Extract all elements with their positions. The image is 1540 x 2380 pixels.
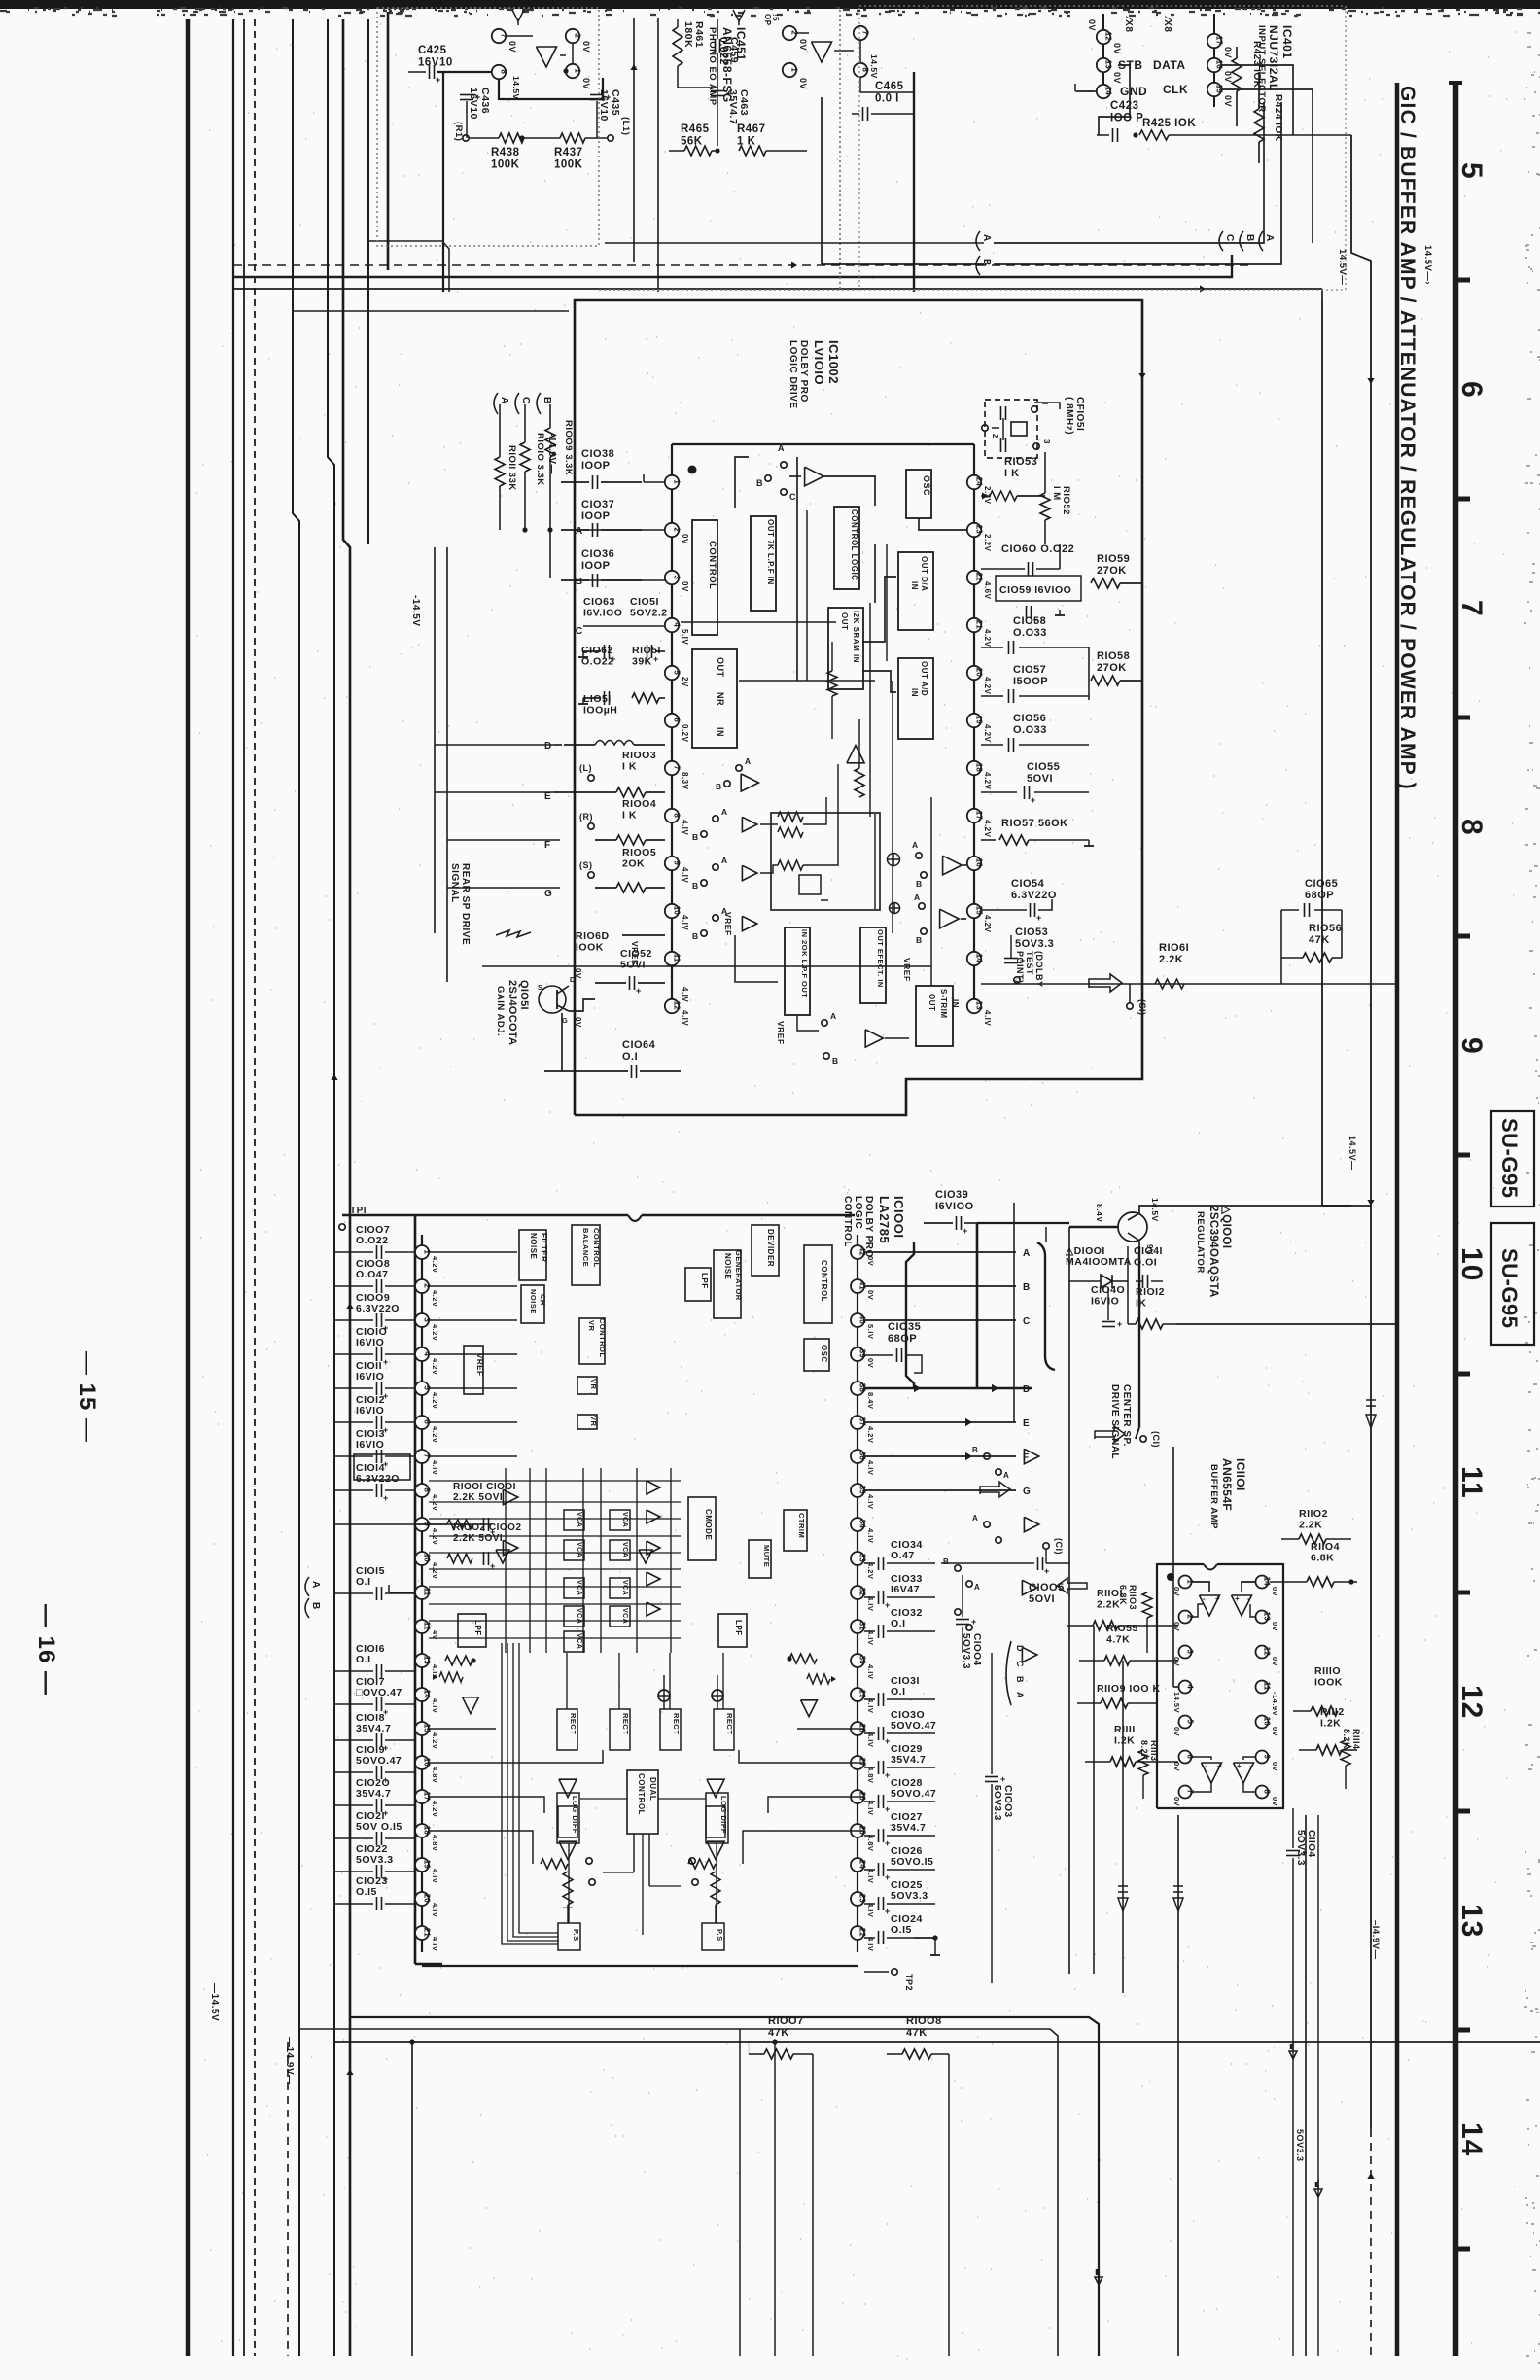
bottom rail of IC1001 wires bbox=[422, 1965, 857, 1967]
svg-text:GIC / BUFFER AMP / ATTENUATOR: GIC / BUFFER AMP / ATTENUATOR / REGULATO… bbox=[1396, 86, 1418, 790]
svg-text:0V: 0V bbox=[1087, 19, 1097, 31]
svg-text:CONTROL: CONTROL bbox=[637, 1773, 646, 1815]
svg-text:RIIIOIOOK: RIIIOIOOK bbox=[1314, 1665, 1343, 1689]
wire crystal to R1052 bbox=[1034, 402, 1060, 409]
svg-text:14.5V—: 14.5V— bbox=[1337, 249, 1347, 285]
DUAL CONTROL block bbox=[627, 1770, 658, 1834]
IC1001 pin 36 bbox=[851, 1450, 864, 1463]
IC1001 pin 20 bbox=[415, 1892, 429, 1906]
switch contacts A/B row 7 bbox=[736, 765, 742, 771]
svg-text:IN: IN bbox=[910, 581, 919, 590]
svg-text:RECT: RECT bbox=[569, 1713, 577, 1734]
IC1001 pin 34 bbox=[851, 1518, 864, 1531]
svg-text:+: + bbox=[1117, 1319, 1123, 1329]
ruler end cap top bbox=[1449, 81, 1462, 85]
sum nodes bbox=[888, 854, 900, 866]
wire GND bracket bbox=[1077, 90, 1095, 92]
svg-text:CIO225OV3.3: CIO225OV3.3 bbox=[356, 1843, 394, 1866]
svg-text:24: 24 bbox=[858, 1860, 867, 1869]
svg-text:0V: 0V bbox=[581, 41, 591, 52]
wire Q1001 emitter bus down bbox=[1045, 1227, 1047, 1242]
IC1001 CTRIM block bbox=[784, 1510, 807, 1551]
svg-text:+: + bbox=[383, 1493, 389, 1503]
svg-text:(SI): (SI) bbox=[1137, 999, 1147, 1016]
crystal symbol bbox=[1000, 406, 1002, 420]
svg-text:14.5V: 14.5V bbox=[1150, 1198, 1160, 1222]
svg-text:+: + bbox=[475, 92, 481, 102]
svg-text:6: 6 bbox=[673, 717, 682, 722]
outer box right lower bbox=[575, 723, 1142, 1115]
svg-text:RECT: RECT bbox=[621, 1713, 630, 1734]
wire bus bbox=[328, 19, 334, 2356]
svg-text:GAIN ADJ.: GAIN ADJ. bbox=[495, 986, 506, 1036]
IC1001 pin 38 bbox=[851, 1382, 864, 1395]
svg-text:CONTROL: CONTROL bbox=[598, 1318, 607, 1358]
IC1002 index dot bbox=[688, 466, 697, 474]
svg-text:9: 9 bbox=[1263, 1754, 1272, 1759]
arrow up bbox=[331, 1074, 337, 1080]
wire STB down bbox=[1099, 65, 1130, 135]
svg-text:GND: GND bbox=[1120, 85, 1147, 98]
svg-text:4.IV: 4.IV bbox=[866, 1494, 875, 1509]
model label SU-G95 upper bbox=[1491, 1111, 1534, 1207]
svg-text:14: 14 bbox=[1104, 87, 1113, 95]
svg-text:NOISE: NOISE bbox=[723, 1253, 732, 1280]
input triangles pins 9 10 bbox=[458, 1523, 460, 1525]
svg-text:NR: NR bbox=[716, 692, 725, 706]
svg-text:A: A bbox=[1023, 1248, 1031, 1259]
svg-text:32: 32 bbox=[858, 1588, 867, 1596]
svg-text:4.IV: 4.IV bbox=[681, 867, 689, 883]
hatched arrow down right bbox=[1366, 1400, 1376, 1428]
svg-text:NOISE: NOISE bbox=[529, 1233, 538, 1260]
IC1002 pin 2 bbox=[665, 523, 679, 537]
svg-text:D: D bbox=[1023, 1384, 1031, 1395]
svg-text:8.4V: 8.4V bbox=[1095, 1204, 1104, 1223]
svg-text:VR: VR bbox=[589, 1379, 598, 1390]
vertical x797 down bbox=[774, 2042, 776, 2356]
svg-text:A: A bbox=[499, 397, 509, 404]
IC1001 NOISE CH block bbox=[521, 1285, 544, 1323]
svg-text:5OV3.3: 5OV3.3 bbox=[1295, 2129, 1305, 2162]
capacitor C1059 16V100 boxed bbox=[996, 576, 1081, 601]
IC1101 wires verticals down bbox=[1068, 1227, 1070, 1974]
svg-text:G: G bbox=[562, 1016, 568, 1025]
svg-text:22: 22 bbox=[975, 573, 984, 581]
svg-text:0V: 0V bbox=[581, 78, 591, 89]
svg-text:LOG DIFF: LOG DIFF bbox=[719, 1796, 728, 1834]
svg-text:S-TRIM: S-TRIM bbox=[939, 989, 948, 1019]
svg-text:CIO58O.O33: CIO58O.O33 bbox=[1013, 615, 1047, 639]
svg-text:TPI: TPI bbox=[350, 1206, 367, 1216]
IC1002 pin 14 bbox=[967, 952, 981, 965]
IC1001 pin 16 bbox=[415, 1756, 429, 1769]
svg-text:6: 6 bbox=[1455, 381, 1487, 399]
IC1101 pin 11 bbox=[1256, 1681, 1269, 1694]
svg-text:5: 5 bbox=[1455, 162, 1487, 180]
wire R461/C459 join bbox=[678, 87, 717, 88]
svg-text:VR: VR bbox=[589, 1416, 598, 1427]
svg-text:39: 39 bbox=[858, 1349, 867, 1358]
svg-text:4.IV: 4.IV bbox=[681, 915, 689, 930]
svg-text:A: A bbox=[974, 1583, 980, 1592]
svg-text:R461180K: R461180K bbox=[682, 21, 705, 48]
svg-text:4.8V: 4.8V bbox=[866, 1767, 875, 1783]
svg-text:14: 14 bbox=[975, 954, 984, 962]
svg-text:0V: 0V bbox=[866, 1358, 875, 1368]
svg-text:S: S bbox=[538, 983, 543, 992]
IC1101 opamp triangles bbox=[1200, 1595, 1220, 1616]
log diff column right bbox=[707, 1779, 724, 1797]
svg-text:C4590.022: C4590.022 bbox=[717, 37, 740, 65]
svg-text:B: B bbox=[692, 931, 699, 941]
svg-text:VR: VR bbox=[587, 1320, 596, 1332]
svg-text:+: + bbox=[885, 1736, 891, 1746]
IC1001 pin 40 bbox=[851, 1313, 864, 1327]
wire bus bbox=[367, 19, 369, 544]
svg-text:GENERATOR: GENERATOR bbox=[734, 1250, 743, 1301]
svg-text:C: C bbox=[1023, 1316, 1031, 1327]
svg-text:CIO56O.O33: CIO56O.O33 bbox=[1013, 713, 1047, 736]
dotted frame input selector zone bbox=[859, 6, 1346, 290]
svg-text:TP2: TP2 bbox=[904, 1974, 914, 1991]
IC1001 pin 9 bbox=[415, 1518, 429, 1531]
svg-text:+: + bbox=[1235, 1594, 1240, 1603]
svg-text:A: A bbox=[310, 1581, 321, 1589]
svg-text:CLK: CLK bbox=[1163, 83, 1188, 96]
IC1101 pin 8 bbox=[1256, 1786, 1269, 1799]
wire -14.9V bus bbox=[232, 19, 234, 2356]
hatch arrow rear sp bbox=[496, 930, 531, 937]
wires pins to right bbox=[1221, 65, 1293, 135]
svg-text:-14.9V: -14.9V bbox=[1271, 1692, 1279, 1716]
svg-text:4.IV: 4.IV bbox=[983, 1010, 992, 1026]
svg-text:3: 3 bbox=[1042, 439, 1051, 444]
svg-text:4.2V: 4.2V bbox=[431, 1732, 439, 1749]
svg-text:⁄X8: ⁄X8 bbox=[1162, 16, 1172, 32]
IC1002 right pin rail bbox=[973, 444, 975, 1006]
svg-text:RECT: RECT bbox=[725, 1713, 734, 1734]
svg-text:C: C bbox=[576, 626, 583, 637]
svg-text:12: 12 bbox=[423, 1622, 432, 1630]
svg-text:0V: 0V bbox=[1172, 1727, 1181, 1736]
svg-text:0V: 0V bbox=[1271, 1657, 1279, 1666]
svg-text:CIO6O O.O22: CIO6O O.O22 bbox=[1001, 543, 1074, 555]
svg-text:19: 19 bbox=[975, 716, 984, 724]
svg-text:4.2V: 4.2V bbox=[431, 1528, 439, 1545]
svg-text:+: + bbox=[885, 1804, 891, 1814]
terminal (S1) bbox=[1127, 1003, 1133, 1009]
svg-text:21: 21 bbox=[975, 620, 984, 629]
IC1001 pin 39 bbox=[851, 1347, 864, 1361]
IC1001 pin 14 bbox=[415, 1688, 429, 1701]
svg-text:SU-G95: SU-G95 bbox=[1497, 1248, 1522, 1328]
OUT EFECT IN block bbox=[860, 927, 886, 1003]
IC1002 OUT 7K LPF IN block bbox=[751, 516, 776, 611]
svg-text:+: + bbox=[885, 1600, 891, 1610]
IC1001 pin 42 bbox=[851, 1245, 864, 1259]
terminal TP2 bbox=[864, 1971, 889, 1973]
IC1002 CONTROL block bbox=[692, 520, 717, 635]
svg-text:4.IV: 4.IV bbox=[866, 1528, 875, 1543]
svg-text:4.IV: 4.IV bbox=[866, 1630, 875, 1645]
svg-text:VREF: VREF bbox=[723, 912, 733, 936]
svg-text:CIOO8O.O47: CIOO8O.O47 bbox=[356, 1258, 390, 1280]
svg-text:—14.5V: —14.5V bbox=[209, 1983, 220, 2021]
svg-text:4.2V: 4.2V bbox=[983, 629, 992, 647]
svg-text:4.2V: 4.2V bbox=[431, 1562, 439, 1579]
IC1001 LPF low-right block bbox=[718, 1614, 747, 1647]
arrow up on 14.5V bus bbox=[346, 1303, 353, 1309]
svg-text:CH: CH bbox=[539, 1294, 547, 1306]
wires switch to triangle bbox=[789, 475, 801, 477]
IC1001 CONTROL block bbox=[804, 1245, 832, 1323]
svg-text:LPF: LPF bbox=[473, 1620, 482, 1636]
svg-text:16: 16 bbox=[975, 858, 984, 867]
LOG DIFF blocks bbox=[557, 1793, 579, 1843]
svg-text:IN: IN bbox=[716, 727, 725, 737]
svg-text:CONTROL: CONTROL bbox=[592, 1228, 601, 1268]
IC1001 pin 21 bbox=[415, 1926, 429, 1940]
IC1002 pin 15 bbox=[967, 904, 981, 918]
grid tick bbox=[1455, 2247, 1470, 2252]
IC1002 OUT 12K SRAM IN block bbox=[828, 608, 863, 689]
svg-text:4.2V: 4.2V bbox=[983, 772, 992, 790]
IC1002 pin 10 bbox=[665, 904, 679, 918]
svg-text:B: B bbox=[1015, 1676, 1025, 1683]
svg-text:8.3V: 8.3V bbox=[681, 772, 689, 790]
svg-text:13: 13 bbox=[975, 1001, 984, 1010]
IC1002 left pin rail bbox=[671, 444, 673, 1006]
svg-text:12: 12 bbox=[1104, 32, 1113, 41]
IC1002 pin 23 bbox=[967, 523, 981, 537]
IC1001 pin 27 bbox=[851, 1756, 864, 1769]
OUT S-TRIM IN block bbox=[916, 986, 953, 1046]
svg-text:10: 10 bbox=[673, 906, 682, 915]
svg-text:VCA: VCA bbox=[576, 1542, 582, 1557]
svg-text:2V: 2V bbox=[681, 677, 689, 687]
wire stub from Q1051 gate down bbox=[561, 1013, 563, 1071]
IC1001 NOISE GENERATOR block bbox=[714, 1250, 741, 1318]
svg-text:14: 14 bbox=[423, 1690, 432, 1698]
svg-text:4.2V: 4.2V bbox=[866, 1562, 875, 1579]
svg-text:VCA: VCA bbox=[621, 1580, 628, 1595]
IC1002 pin 4 bbox=[665, 618, 679, 632]
arrow down x1410 bbox=[1367, 378, 1374, 384]
bottom bus 14.5V thick bbox=[350, 2017, 1099, 2356]
IC1001 pin 5 bbox=[415, 1382, 429, 1395]
wire 14.5V right bbox=[1351, 135, 1371, 2129]
svg-text:RIO5927OK: RIO5927OK bbox=[1097, 553, 1130, 577]
svg-text:B: B bbox=[972, 1446, 978, 1454]
svg-text:+: + bbox=[1000, 1774, 1006, 1784]
IC1002 pin 7 bbox=[665, 761, 679, 775]
svg-text:F: F bbox=[1023, 1452, 1030, 1463]
svg-text:A: A bbox=[1264, 234, 1275, 242]
svg-text:–I4.9V—: –I4.9V— bbox=[1370, 1920, 1381, 1959]
svg-text:E: E bbox=[1023, 1418, 1030, 1429]
svg-text:A: A bbox=[721, 807, 728, 817]
svg-text:4.2V: 4.2V bbox=[431, 1801, 439, 1817]
svg-text:3: 3 bbox=[1186, 1649, 1195, 1654]
row30 resistor right bbox=[789, 1654, 817, 1663]
IC1101 pin 14 bbox=[1256, 1576, 1269, 1589]
svg-text:4.IV: 4.IV bbox=[866, 1698, 875, 1713]
IC1001 top edge extension left bbox=[342, 1214, 415, 1217]
svg-text:RIIO9 IOO K: RIIO9 IOO K bbox=[1097, 1683, 1161, 1695]
switch pairs near right pins bbox=[984, 1453, 990, 1459]
IC1001 LPF block bbox=[685, 1268, 711, 1301]
grid tick bbox=[1455, 2028, 1470, 2033]
svg-text:A: A bbox=[721, 856, 728, 865]
svg-text:G: G bbox=[544, 889, 552, 899]
schematic right border line bbox=[1395, 83, 1400, 2356]
svg-text:A: A bbox=[972, 1514, 978, 1522]
IC1101 body bbox=[1157, 1564, 1204, 1808]
IC1001 pin 10 bbox=[415, 1552, 429, 1565]
bus wire to big box right bbox=[1321, 289, 1323, 300]
svg-text:RECT: RECT bbox=[672, 1713, 681, 1734]
IC1101 pin 1 bbox=[1179, 1576, 1192, 1589]
sum node circles bbox=[658, 1690, 670, 1701]
svg-text:A: A bbox=[745, 756, 752, 766]
IC1001 pin 1 bbox=[415, 1245, 429, 1259]
bus wire row A bbox=[368, 241, 449, 292]
svg-text:0V: 0V bbox=[798, 78, 808, 89]
svg-text:4.2V: 4.2V bbox=[431, 1358, 439, 1375]
svg-text:B: B bbox=[692, 832, 699, 842]
IC1101 pin 2 bbox=[1179, 1611, 1192, 1624]
wire left vertical bbox=[442, 72, 444, 292]
svg-text:12: 12 bbox=[1263, 1647, 1272, 1656]
IC401 pins 17 16 15 column bbox=[1213, 14, 1215, 107]
svg-text:0V: 0V bbox=[1271, 1762, 1279, 1771]
IC1001 pin 33 bbox=[851, 1552, 864, 1565]
wire bracket lines bbox=[994, 102, 1264, 243]
svg-text:4.IV: 4.IV bbox=[431, 1937, 439, 1951]
svg-text:R425 IOK: R425 IOK bbox=[1142, 118, 1196, 129]
svg-text:RIOO9 3.3K: RIOO9 3.3K bbox=[563, 420, 574, 475]
svg-text:0V: 0V bbox=[1172, 1762, 1181, 1771]
vertical x761 down bbox=[739, 2029, 741, 2356]
svg-text:OUT D/A: OUT D/A bbox=[920, 556, 928, 591]
svg-text:+: + bbox=[1302, 1848, 1308, 1858]
svg-text:+: + bbox=[1215, 1594, 1220, 1603]
wire bus bbox=[387, 12, 390, 270]
svg-text:CMODE: CMODE bbox=[704, 1509, 713, 1540]
wire dashed bus bbox=[254, 19, 256, 2356]
svg-text:RIO5827OK: RIO5827OK bbox=[1097, 650, 1130, 674]
svg-text:14: 14 bbox=[1455, 2122, 1487, 2156]
fork terminal bbox=[512, 10, 524, 21]
svg-text:0V: 0V bbox=[1223, 47, 1233, 58]
wire D-row heavy loop bbox=[976, 1223, 979, 1388]
triangle up near osc bbox=[847, 746, 864, 763]
svg-text:VREF: VREF bbox=[902, 958, 912, 982]
svg-text:0V: 0V bbox=[1172, 1797, 1181, 1806]
svg-text:10: 10 bbox=[1455, 1247, 1487, 1281]
svg-text:LPF: LPF bbox=[734, 1620, 743, 1636]
svg-text:B: B bbox=[943, 1557, 949, 1566]
svg-text:VCA: VCA bbox=[576, 1608, 582, 1624]
svg-text:4.8V: 4.8V bbox=[431, 1835, 439, 1851]
svg-text:VCA: VCA bbox=[621, 1608, 628, 1624]
svg-text:CIOO45OV3.3: CIOO45OV3.3 bbox=[961, 1633, 982, 1669]
svg-text:VCA: VCA bbox=[576, 1512, 582, 1527]
svg-text:4.2V: 4.2V bbox=[983, 820, 992, 838]
svg-text:-: - bbox=[1203, 1594, 1206, 1603]
svg-text:IN 2OK L.P.F OUT: IN 2OK L.P.F OUT bbox=[800, 929, 809, 997]
svg-text:4.IV: 4.IV bbox=[431, 1698, 439, 1713]
svg-text:8: 8 bbox=[500, 69, 508, 74]
svg-text:0V: 0V bbox=[574, 968, 582, 979]
svg-text:11: 11 bbox=[673, 954, 682, 962]
inner opamp triangles row bbox=[741, 774, 758, 791]
svg-text:0V: 0V bbox=[507, 41, 517, 52]
svg-text:11: 11 bbox=[423, 1588, 432, 1596]
svg-text:9: 9 bbox=[1455, 1037, 1487, 1055]
svg-text:+: + bbox=[885, 1872, 891, 1882]
svg-text:+: + bbox=[885, 1770, 891, 1780]
svg-text:4.IV: 4.IV bbox=[866, 1460, 875, 1475]
svg-text:0V: 0V bbox=[1271, 1587, 1279, 1596]
svg-text:R437100K: R437100K bbox=[554, 147, 583, 171]
node (C) terminal bbox=[1043, 1543, 1049, 1549]
svg-text:0V: 0V bbox=[1172, 1587, 1181, 1596]
IC1101 pin 9 bbox=[1256, 1751, 1269, 1764]
svg-text:CIO38IOOP: CIO38IOOP bbox=[581, 448, 614, 472]
svg-text:(S): (S) bbox=[579, 860, 593, 870]
svg-text:4.IV: 4.IV bbox=[431, 1869, 439, 1883]
svg-text:RIIIII.2K: RIIIII.2K bbox=[1114, 1724, 1136, 1747]
IC1002 pin 6 bbox=[665, 714, 679, 727]
svg-text:C: C bbox=[1015, 1661, 1025, 1667]
bottom opamp triangle bbox=[865, 1030, 883, 1047]
svg-text:NOISE: NOISE bbox=[529, 1289, 538, 1314]
VCA blocks grid bbox=[564, 1510, 584, 1530]
feedback resistors cluster bbox=[778, 812, 803, 822]
svg-text:22: 22 bbox=[858, 1928, 867, 1937]
IC1001 pin 11 bbox=[415, 1586, 429, 1599]
svg-text:A: A bbox=[778, 443, 785, 453]
svg-text:— 16 —: — 16 — bbox=[33, 1604, 59, 1696]
IC1001 right edge triangles to pins 37-34 bbox=[1024, 1449, 1038, 1463]
boxed C1014 label bbox=[354, 1454, 410, 1480]
svg-text:VCA: VCA bbox=[576, 1580, 582, 1595]
svg-text:4: 4 bbox=[673, 622, 682, 627]
svg-text:14.5V: 14.5V bbox=[869, 54, 879, 79]
svg-text:4.IV: 4.IV bbox=[681, 987, 689, 1002]
svg-text:OUT 7K L.P.F IN: OUT 7K L.P.F IN bbox=[766, 519, 775, 585]
staircase wires bbox=[429, 1728, 496, 1730]
IC1001 VR block 1 bbox=[577, 1377, 597, 1394]
svg-text:4.IV: 4.IV bbox=[866, 1903, 875, 1917]
IC1001 pin 24 bbox=[851, 1858, 864, 1872]
ground stub pin14 bbox=[1075, 90, 1097, 92]
hatch arrow center sp bbox=[1095, 1426, 1125, 1442]
svg-text:(L): (L) bbox=[579, 763, 592, 773]
svg-text:G: G bbox=[1023, 1487, 1031, 1497]
svg-text:5: 5 bbox=[673, 670, 682, 675]
model label SU-G95 lower bbox=[1491, 1223, 1534, 1345]
svg-text:A: A bbox=[1015, 1692, 1025, 1698]
small square mixer bbox=[799, 875, 821, 894]
IC1002 pin 18 bbox=[967, 761, 981, 775]
svg-text:-: - bbox=[1247, 1594, 1250, 1603]
svg-text:4.8V: 4.8V bbox=[866, 1835, 875, 1851]
svg-text:CIOO7O.O22: CIOO7O.O22 bbox=[356, 1224, 390, 1246]
IC1001 pin 32 bbox=[851, 1586, 864, 1599]
